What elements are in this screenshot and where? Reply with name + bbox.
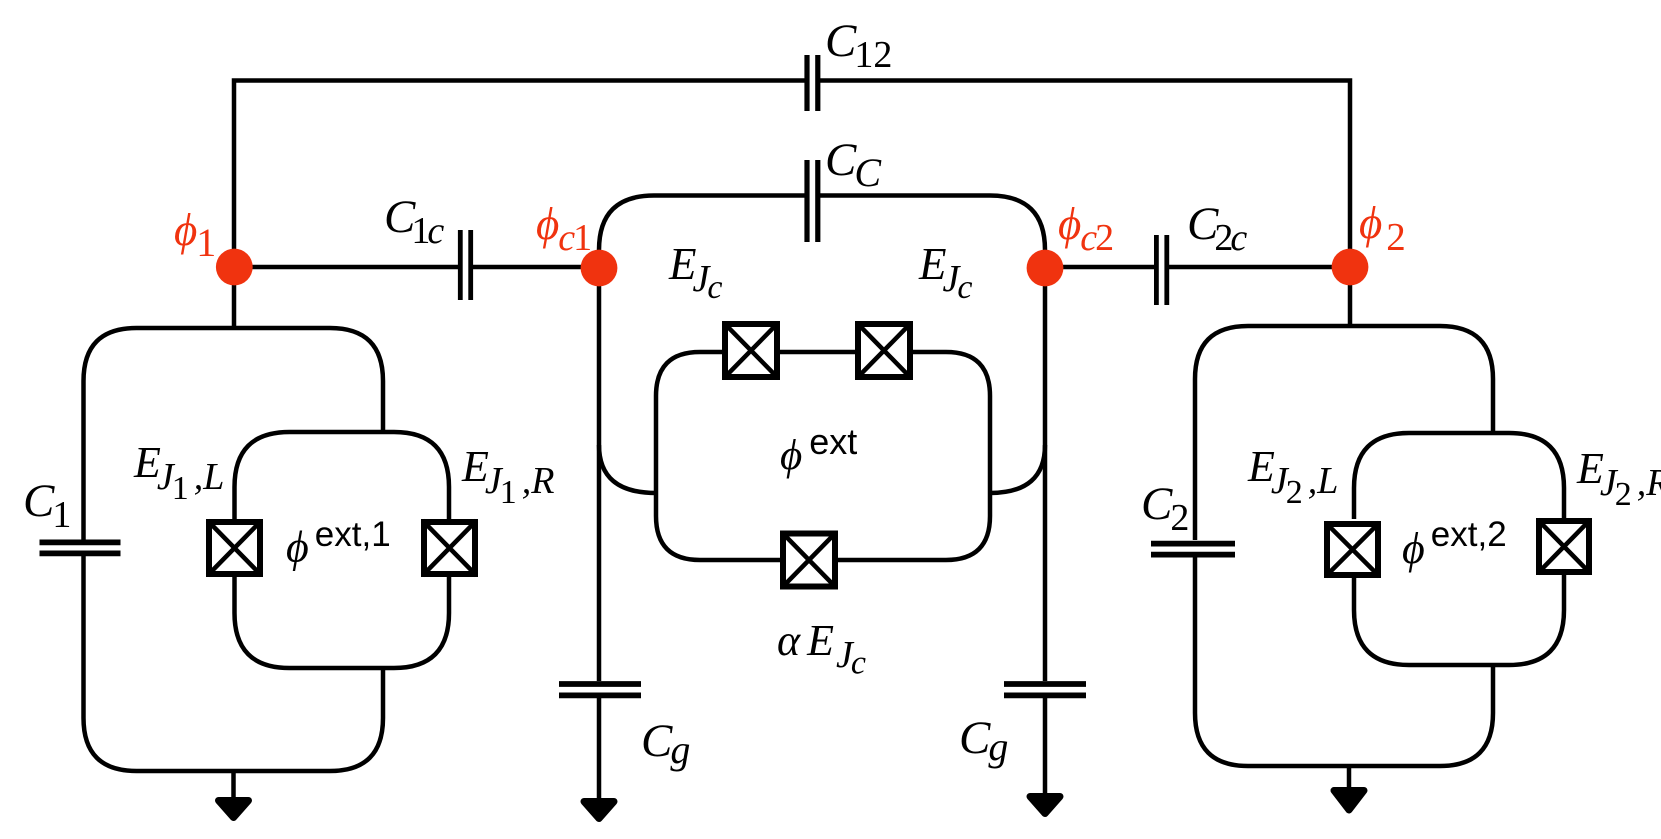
wire left qubit ground stub xyxy=(231,771,236,800)
node phi2 xyxy=(1332,249,1369,286)
wire phi1 to C1c xyxy=(234,265,458,270)
wire coupler top CC branch right xyxy=(820,196,1045,268)
wire coupler loop left connector xyxy=(599,445,656,493)
josephson junction EJ1L xyxy=(208,521,262,576)
josephson junction EJ1R xyxy=(423,521,477,576)
josephson junction EJ2L xyxy=(1326,523,1380,577)
capacitor CC xyxy=(807,160,818,242)
capacitor Cg right xyxy=(1004,684,1086,695)
capacitor Cg left xyxy=(559,684,641,695)
wire right qubit SQUID loop xyxy=(1354,433,1564,665)
josephson junction EJ2R xyxy=(1538,520,1591,574)
capacitor C1c xyxy=(460,230,470,300)
capacitor C2 xyxy=(1151,544,1235,555)
josephson junction EJc left xyxy=(724,323,778,378)
wire phi1 down to left qubit xyxy=(232,267,237,328)
wire Cg left to ground xyxy=(597,698,602,801)
capacitor C1 xyxy=(40,542,121,553)
wire C1c to phi_c1 xyxy=(473,265,599,270)
wire right qubit outer loop lower xyxy=(1195,556,1493,766)
wire coupler SQUID loop xyxy=(656,352,990,560)
node phi1 xyxy=(216,249,253,286)
josephson junction alpha EJc xyxy=(782,533,836,588)
node phi_c2 xyxy=(1027,250,1064,287)
wire C2c to phi2 xyxy=(1169,265,1350,270)
wire left qubit outer loop upper xyxy=(84,328,384,540)
wire top C12 bus right half xyxy=(820,81,1350,268)
node phi_c1 xyxy=(581,250,618,287)
wire Cg right to ground xyxy=(1043,698,1048,796)
josephson junction EJc right xyxy=(857,323,911,378)
capacitor C12 xyxy=(807,55,818,111)
wire coupler top CC branch left xyxy=(599,196,805,268)
ground left qubit xyxy=(219,801,249,818)
ground left coupler xyxy=(584,802,614,819)
wire right qubit outer loop upper xyxy=(1195,326,1493,540)
wire phi_c2 down to Cg xyxy=(1043,267,1048,681)
wire phi_c2 to C2c xyxy=(1045,265,1154,270)
wire top C12 bus left half xyxy=(234,81,805,268)
wire coupler loop right connector xyxy=(990,445,1045,493)
ground right qubit xyxy=(1334,791,1364,811)
wire right qubit ground stub xyxy=(1347,766,1352,791)
capacitor C2c xyxy=(1156,235,1166,305)
wire phi2 down to right qubit xyxy=(1348,267,1353,326)
wire left qubit outer loop lower xyxy=(84,556,384,771)
wire phi_c1 down to Cg xyxy=(597,267,602,681)
ground right coupler xyxy=(1030,797,1060,814)
wire left qubit SQUID loop xyxy=(235,432,450,668)
